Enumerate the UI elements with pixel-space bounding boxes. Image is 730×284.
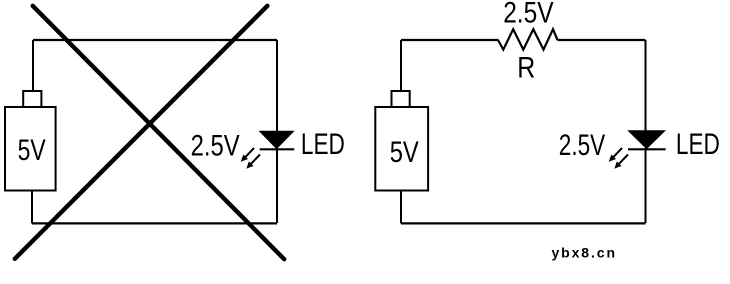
- cross-out stroke 1 (top-left to bottom-right): [33, 6, 285, 259]
- svg-text:2.5V: 2.5V: [503, 0, 554, 30]
- LED D2 light emission arrow 1: [609, 148, 622, 162]
- LED D1 light emission arrow 2: [246, 155, 260, 169]
- wire: left battery positive lead: [32, 40, 34, 92]
- svg-text:LED: LED: [301, 128, 345, 161]
- wire: right circuit right side (LED anode): [645, 40, 647, 133]
- wire: left battery negative lead: [31, 190, 33, 223]
- wire: left circuit right side (LED anode): [276, 40, 278, 133]
- wire: right battery negative lead: [400, 190, 402, 223]
- svg-text:5V: 5V: [390, 136, 419, 169]
- svg-text:R: R: [517, 52, 535, 85]
- wire: left circuit right side (LED cathode): [276, 148, 278, 223]
- svg-text:LED: LED: [676, 128, 720, 161]
- svg-text:2.5V: 2.5V: [191, 130, 240, 163]
- wire: right circuit top right segment: [558, 39, 646, 41]
- cross-out stroke 2 (top-right to bottom-left): [15, 6, 268, 259]
- resistor R: [498, 29, 557, 49]
- LED D2 (right circuit): [628, 131, 666, 150]
- svg-text:5V: 5V: [18, 134, 46, 167]
- svg-text:ybx8.cn: ybx8.cn: [552, 244, 616, 260]
- battery B1 (5V cell, left circuit): [5, 91, 56, 191]
- wire: right battery positive lead: [400, 40, 402, 92]
- wire: left circuit bottom: [32, 222, 277, 224]
- LED D1 (left circuit): [260, 131, 295, 149]
- wire: left circuit top: [33, 39, 277, 41]
- wire: right circuit bottom: [401, 222, 646, 224]
- wire: right circuit right side (LED cathode): [645, 148, 647, 223]
- LED D2 light emission arrow 2: [614, 155, 628, 169]
- wire: right circuit top left segment: [401, 39, 499, 41]
- svg-text:2.5V: 2.5V: [559, 129, 606, 162]
- LED D1 light emission arrow 1: [241, 148, 254, 162]
- battery B2 (5V cell, right circuit): [375, 91, 428, 191]
